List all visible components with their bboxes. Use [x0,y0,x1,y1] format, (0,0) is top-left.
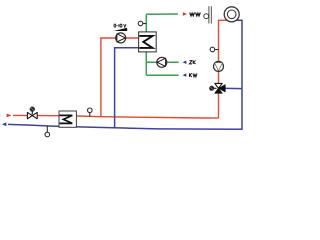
heat exchanger HX2 plate symbol [60,115,73,123]
label 0-10 V [114,24,126,27]
wire: blue return line to HX1 [115,47,139,49]
label ZK [189,61,195,65]
wire: green WW line [146,13,178,15]
wire: red pump feed line to HX1 [100,37,138,39]
heat exchanger HX1 plate symbol [139,36,152,48]
label KW [190,73,198,77]
wire: green secondary vertical through HX1 [145,14,147,75]
sensor S4 on blue bottom main [45,126,50,137]
sensor S3 on red bottom main [88,108,93,117]
wire: red supply bottom-left segment [13,114,59,116]
sensor S1 on WW line [138,21,146,26]
arrow red supply inlet [7,114,12,118]
pump P2 (circulation pump ZK) [157,57,167,67]
wire: red vertical from pump line to bottom main [100,38,102,117]
tap outlet symbol [204,6,212,23]
wire: blue top link from storage circle [236,19,243,21]
pump P3 (riser pump, downward) [214,61,224,71]
wire: blue branch from 3-way valve to riser [219,87,242,89]
wire: red top link to storage circle [218,19,228,21]
valve V1 two-way with actuator [27,107,37,119]
heat exchanger HX1 body [139,32,157,52]
heat exchanger HX2 body [59,111,76,127]
wire: blue bottom main run [8,124,242,129]
arrow blue return outlet [2,123,6,127]
valve V2 three-way with actuator [209,83,225,93]
wire: green KW cold water line [146,74,178,76]
arrow KW [183,73,187,77]
label WW [190,13,201,16]
ramp symbol over pump P1 [114,28,128,31]
sensor S2 on red riser [210,47,218,52]
pump P1 (0-10V primary pump) [116,33,126,43]
wire: red right riser [218,20,220,118]
wire: red bottom main run [77,116,219,118]
wire: green ZK circulation line [146,61,178,63]
wire: blue right riser [241,20,243,130]
arrow WW [183,12,187,15]
arrow ZK [183,61,187,65]
wire: blue vertical down to bottom main [114,47,116,128]
storage/meter double circle [224,7,239,22]
